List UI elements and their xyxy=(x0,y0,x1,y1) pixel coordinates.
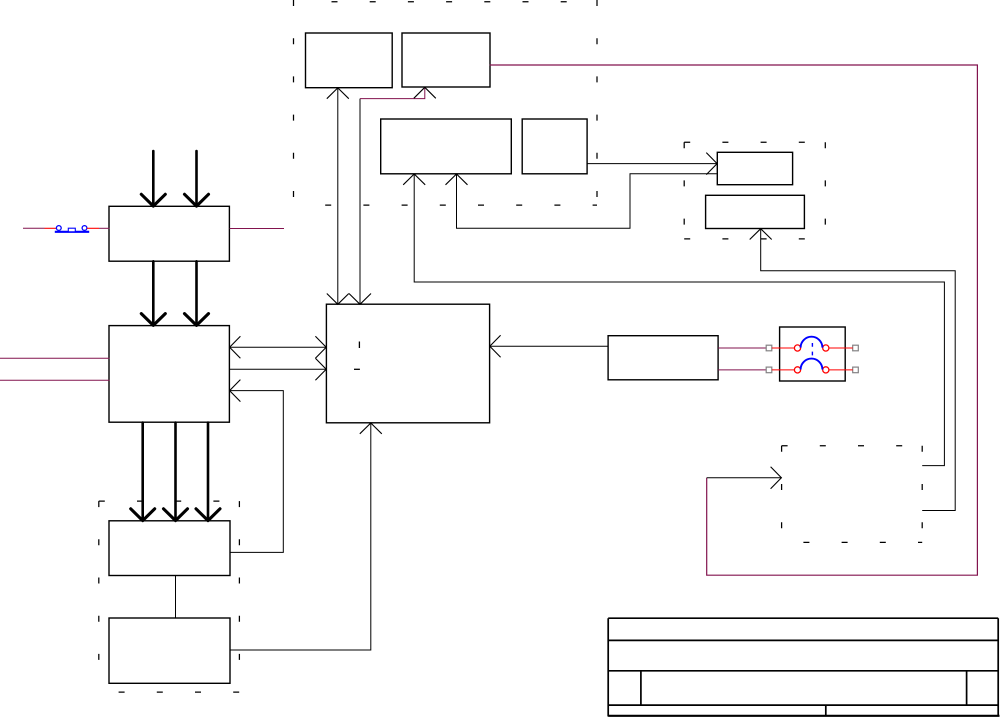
wire (B11 to B12 connector) xyxy=(175,576,177,619)
fuse F1 element box xyxy=(68,228,75,232)
stray dash S2 xyxy=(354,368,360,370)
winding node circle upper-left xyxy=(794,345,800,351)
fuse F1 left terminal circle xyxy=(56,226,61,231)
thick arrow A6 B8 to B11 xyxy=(164,423,188,521)
fuse F1 right terminal circle xyxy=(82,226,87,231)
stray dash S1 xyxy=(358,342,360,349)
wire W7 (B1 to B9 vertical) xyxy=(337,88,339,305)
transformer T1 outline xyxy=(780,327,846,381)
arrowhead W14 into B9 right xyxy=(490,335,501,357)
wire W1 red segment left xyxy=(45,227,57,229)
wire W17 purple B10 to transformer upper xyxy=(718,347,766,349)
wire W12 (B8-B9 upper double arrow) xyxy=(229,346,326,348)
core dashed line xyxy=(811,343,813,355)
block B1 xyxy=(306,33,393,88)
thick arrow A3 B7 to B8 xyxy=(141,261,165,325)
wire W2 purple stub right of B7 xyxy=(230,228,284,230)
wire W15 (B11 to B8 feedback) xyxy=(229,391,283,553)
winding node circle upper-right xyxy=(823,345,829,351)
block B9 xyxy=(326,304,489,423)
block B2 xyxy=(402,33,490,87)
red lead upper-right xyxy=(829,347,853,349)
title block frame xyxy=(608,618,998,716)
wire W1 purple right segment into B7 xyxy=(99,227,110,229)
block B4 xyxy=(522,119,587,174)
arrowhead into B1 bottom xyxy=(327,88,349,99)
dashed region R1 (top subsystem boundary) xyxy=(294,0,598,205)
terminal port square upper-right xyxy=(853,345,859,351)
wire W10 (B3 bottom to R4 right side) xyxy=(414,175,944,466)
title block row line 2 xyxy=(608,670,998,672)
wire W5 purple loop (B2 around right side) xyxy=(490,65,978,575)
dashed region R3 (bottom-left subsystem boundary) xyxy=(99,501,240,692)
arrowhead W12 into B9 left xyxy=(315,336,326,358)
title block row line 1 xyxy=(608,639,998,641)
arrowhead W5 into R4 left xyxy=(771,467,782,489)
wire W18 purple B10 to transformer lower xyxy=(718,369,766,371)
arrowhead W9 into B3 bottom xyxy=(446,174,468,185)
thick arrow A7 B8 to B11 xyxy=(196,423,220,521)
block B6 xyxy=(706,195,805,228)
winding node circle lower-left xyxy=(794,367,800,373)
wire W6 black segment (junction to B9 top) xyxy=(359,99,361,305)
wire W8 (B4 to B5) xyxy=(587,163,717,165)
wire W3 purple into B8 upper xyxy=(0,357,110,359)
wire W11 (R4 right side to B6 bottom) xyxy=(761,229,956,511)
red lead lower-right xyxy=(829,369,853,371)
wire W1 red segment right xyxy=(87,227,99,229)
thick arrow A2 into B7 top xyxy=(185,151,209,206)
wire W14 (B10 to B9) xyxy=(490,345,608,347)
arrowhead W8 into B5 left xyxy=(706,153,717,175)
arrowhead W16 into B9 bottom xyxy=(360,423,382,434)
winding node circle lower-right xyxy=(823,367,829,373)
thick arrow A4 B7 to B8 xyxy=(185,261,209,325)
wire W13 (B8-B9 lower arrow) xyxy=(229,368,326,370)
terminal port square lower-left xyxy=(766,367,772,373)
red lead upper-left xyxy=(772,347,795,349)
block B12 xyxy=(109,618,230,683)
fuse F1 bar xyxy=(55,231,89,233)
winding arc lower xyxy=(801,359,823,370)
block B11 xyxy=(109,521,230,576)
title block divider v3 xyxy=(825,705,827,716)
winding arc upper xyxy=(801,337,823,348)
block B8 xyxy=(109,326,229,423)
arrowhead W7 into B9 top xyxy=(327,294,349,305)
block B5 xyxy=(717,152,792,184)
terminal port square lower-right xyxy=(853,367,859,373)
arrowhead W10 into B3 bottom xyxy=(403,174,425,185)
dashed region R4 (bottom-right subsystem boundary) xyxy=(782,446,923,543)
red lead lower-left xyxy=(772,369,795,371)
arrowhead into B2 bottom xyxy=(414,87,436,98)
wire W5 black arrow into R4 xyxy=(707,477,782,479)
block B10 xyxy=(608,336,718,380)
terminal port square upper-left xyxy=(766,345,772,351)
block B7 xyxy=(109,206,229,261)
arrowhead W6 into B9 top xyxy=(349,294,371,305)
block B3 xyxy=(381,119,512,174)
wire W9 (B5 area to B3 bottom) xyxy=(457,174,717,228)
thick arrow A1 into B7 top xyxy=(141,151,165,206)
wire W4 purple into B8 lower xyxy=(0,379,110,381)
arrowhead W12 into B8 right xyxy=(230,336,241,358)
thick arrow A5 B8 to B11 xyxy=(131,423,155,521)
title block divider v2 xyxy=(966,671,968,705)
wire W16 (B12 to B9 bottom) xyxy=(230,423,371,650)
wire W6 purple segment from B2 bottom xyxy=(360,88,425,99)
arrowhead W13 into B9 left xyxy=(315,358,326,380)
dashed region R2 (right small subsystem boundary) xyxy=(684,142,825,239)
title block bottom edge xyxy=(608,715,999,717)
arrowhead W15 into B8 right xyxy=(230,380,241,402)
title block divider v1 xyxy=(640,671,642,705)
wire W1 purple left segment xyxy=(23,227,45,229)
arrowhead W11 into B6 bottom xyxy=(750,229,772,240)
title block row line 3 xyxy=(608,704,998,706)
